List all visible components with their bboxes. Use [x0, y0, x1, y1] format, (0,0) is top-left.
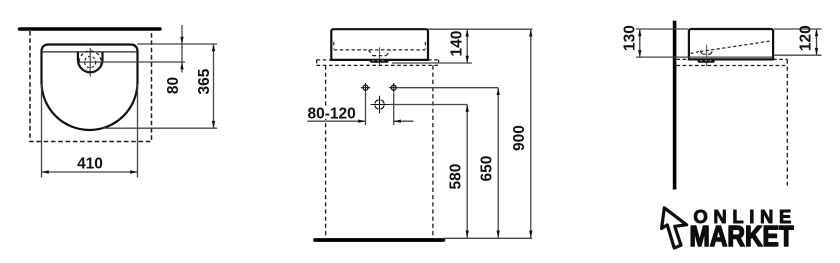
svg-text:130: 130	[621, 25, 638, 51]
extension line at countertop level for 140	[392, 62, 472, 64]
drain position symbol (crosshair circle)	[371, 96, 389, 113]
tap bank pocket	[78, 52, 103, 72]
countertop hidden lines (side)	[676, 59, 787, 65]
dimension 410 line	[42, 171, 138, 173]
floor line	[315, 238, 443, 242]
extension lines for 410	[41, 84, 43, 178]
wall line (side view)	[673, 21, 677, 190]
dimension 80-120 label	[306, 106, 357, 120]
svg-text:580: 580	[448, 164, 465, 190]
cabinet hidden side (side view)	[786, 59, 788, 185]
svg-text:MARKET: MARKET	[690, 220, 795, 252]
dimension 140 arrowheads	[466, 29, 469, 36]
dimension 900 arrowheads	[529, 29, 532, 36]
drain flange (front)	[370, 59, 389, 63]
centre line of drain (front)	[379, 47, 381, 66]
extension line under basin for 130	[636, 56, 772, 58]
centre line of drain (side)	[706, 45, 708, 66]
extension line from drain symbol to 580	[389, 104, 468, 106]
svg-text:365: 365	[196, 68, 213, 94]
svg-text:120: 120	[798, 25, 815, 51]
logo cursor arrow	[662, 208, 687, 248]
dimension 140 line	[466, 29, 468, 63]
floor extension line	[443, 237, 532, 239]
wall line (top view)	[20, 27, 161, 30]
extension line from rim to 900	[428, 28, 533, 30]
dimension 80 line	[181, 25, 183, 73]
dimension 120 line	[816, 29, 818, 55]
dimension 365 arrowheads	[212, 44, 215, 51]
extension line for 120 bottom	[773, 54, 821, 56]
dimension 650 arrowheads	[497, 88, 500, 95]
svg-text:650: 650	[478, 156, 495, 182]
extension line from basin rear edge	[138, 43, 218, 45]
basin interior hidden lines (side)	[691, 41, 771, 54]
svg-text:140: 140	[449, 31, 466, 57]
basin box (side)	[689, 29, 773, 59]
dimension 580 line	[466, 105, 468, 238]
basin interior hidden lines (front)	[334, 42, 426, 56]
basin inner rear edge line	[42, 51, 138, 53]
cabinet hidden sides (front)	[325, 65, 327, 237]
svg-text:900: 900	[511, 125, 528, 151]
dimension 130 line	[639, 29, 641, 57]
extension line from tap hole to 650	[398, 87, 498, 89]
extension line from tap centre to right	[103, 61, 186, 63]
dimension 80 arrowheads	[180, 37, 183, 44]
tap hole symbol (dashed circles + crosshair)	[78, 48, 103, 77]
right tap mounting hole symbol	[389, 83, 398, 92]
dimension 650 line	[497, 88, 499, 238]
extension line rim top right for 120	[774, 28, 822, 30]
drain flange (side)	[698, 59, 715, 63]
dimension 410 arrowheads	[42, 170, 49, 173]
left tap mounting hole symbol	[361, 83, 370, 92]
extension line rim top left for 130	[636, 28, 688, 30]
basin outline (top view)	[42, 45, 138, 131]
basin box (front)	[331, 29, 428, 60]
countertop hidden lines (front)	[317, 60, 439, 66]
dimension 900 line	[530, 29, 532, 238]
extension lines under tap holes	[365, 93, 367, 125]
dimension 80-120 lines	[308, 120, 366, 122]
dimension 130 arrowheads	[638, 29, 641, 36]
dimension 365 line	[213, 44, 215, 128]
svg-text:80-120: 80-120	[308, 105, 356, 122]
dimension 120 arrowheads	[815, 29, 818, 36]
svg-text:80: 80	[165, 77, 182, 94]
hidden outline dashed rectangle (counter, top view)	[30, 31, 152, 142]
dimension 80-120 arrowheads	[358, 120, 365, 123]
dimension 580 arrowheads	[466, 105, 469, 112]
svg-text:410: 410	[77, 155, 103, 172]
extension line from basin front (bottom of arc)	[103, 127, 217, 129]
